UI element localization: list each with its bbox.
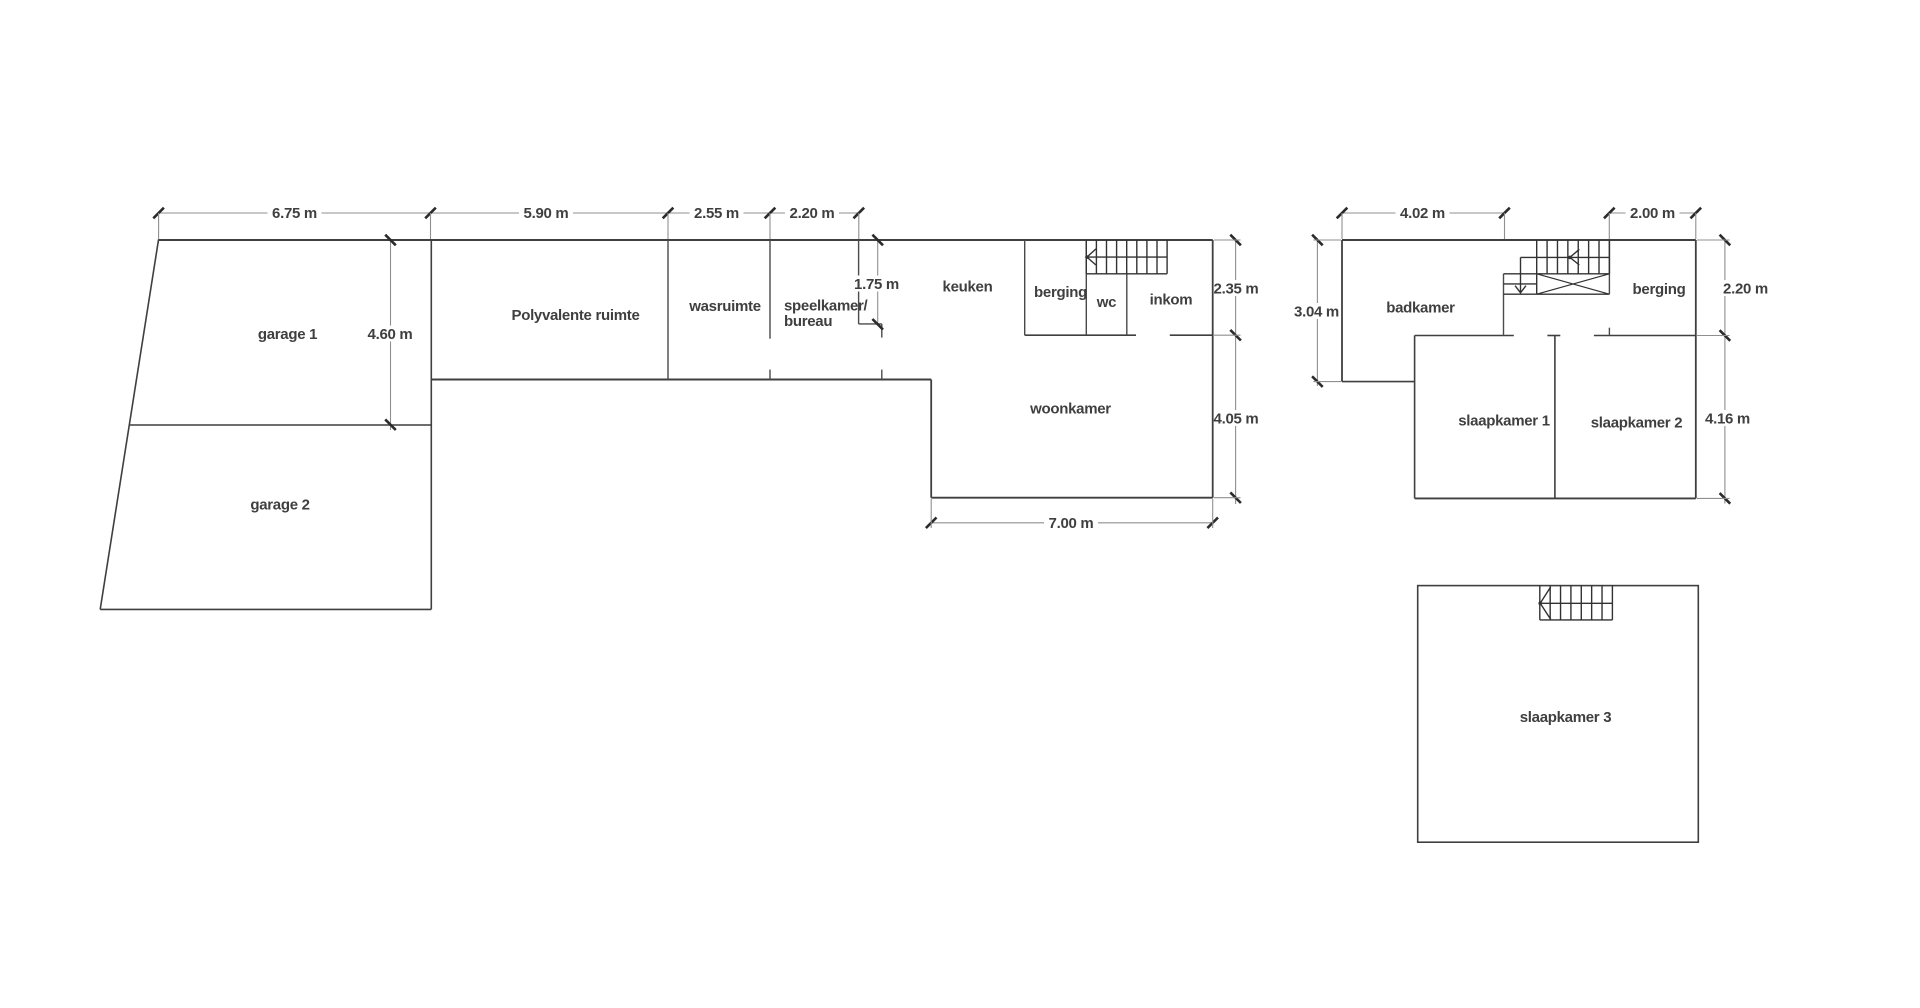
partition wasruimte|speelkamer upper — [769, 240, 771, 339]
svg-text:woonkamer: woonkamer — [1029, 400, 1111, 417]
bedrooms top wall segment B — [1547, 335, 1560, 337]
first floor landing steps — [1504, 273, 1537, 275]
attic staircase bottom edge — [1540, 619, 1613, 621]
first floor staircase down arrow — [1520, 257, 1522, 292]
partition polyvalente|wasruimte — [667, 240, 669, 380]
svg-text:7.00 m: 7.00 m — [1049, 515, 1094, 532]
top dimension line first floor 2.00 m — [1609, 212, 1696, 214]
speelkamer right jamb upper — [881, 324, 883, 338]
svg-text:slaapkamer 2: slaapkamer 2 — [1591, 414, 1682, 431]
inkom bottom wall right segment — [1170, 334, 1213, 336]
garage 1 / garage 2 divider wall — [129, 424, 431, 426]
ground floor slanted left wall (garages) — [100, 239, 158, 609]
first floor staircase arrow up — [1570, 249, 1579, 265]
svg-text:2.20 m: 2.20 m — [790, 205, 835, 222]
dimension 2.20/4.16 right of first floor — [1724, 240, 1726, 504]
stairwell right jamb — [1608, 328, 1610, 336]
svg-text:badkamer: badkamer — [1386, 299, 1455, 316]
attic staircase treads — [1539, 586, 1541, 620]
ground floor outline: top wall — [159, 239, 1213, 241]
slaapkamer 1 left wall — [1414, 336, 1416, 499]
bedrooms bottom wall — [1415, 497, 1696, 499]
woonkamer left wall — [930, 380, 932, 498]
attic staircase mid line — [1540, 602, 1612, 604]
svg-text:slaapkamer 1: slaapkamer 1 — [1458, 412, 1549, 429]
berging/wc bottom wall left segment — [1025, 334, 1136, 336]
svg-text:slaapkamer 3: slaapkamer 3 — [1520, 709, 1611, 726]
wc right wall — [1126, 274, 1128, 335]
extension lines top dims ground floor — [158, 213, 160, 239]
svg-text:1.75 m: 1.75 m — [854, 276, 899, 293]
first floor staircase mid line — [1521, 256, 1610, 258]
badkamer right wall at stairwell — [1503, 274, 1505, 336]
attic staircase arrow — [1540, 587, 1551, 620]
svg-text:berging: berging — [1633, 281, 1686, 298]
svg-text:speelkamer/: speelkamer/ — [784, 297, 869, 314]
dimension 3.04 m left of badkamer — [1316, 240, 1318, 386]
svg-text:garage 2: garage 2 — [250, 496, 309, 513]
svg-text:wc: wc — [1096, 294, 1116, 311]
top dimension line ground floor — [159, 212, 859, 214]
top dimension line first floor 4.02 m — [1342, 212, 1505, 214]
first floor staircase treads — [1536, 240, 1538, 294]
speelkamer bottom short wall — [859, 323, 882, 325]
svg-text:wasruimte: wasruimte — [688, 298, 761, 315]
garage 2 bottom wall — [100, 608, 431, 610]
svg-text:2.20 m: 2.20 m — [1723, 280, 1768, 297]
berging left wall — [1024, 240, 1026, 335]
dimension 2.35/4.05 line right of ground floor — [1235, 240, 1237, 504]
ground floor staircase treads — [1085, 240, 1087, 274]
strip bottom wall (polyvalente/wasruimte/speelkamer) — [431, 379, 931, 381]
ground floor staircase arrow — [1087, 249, 1096, 265]
badkamer bottom wall — [1342, 381, 1415, 383]
ground floor right wall — [1212, 240, 1214, 498]
svg-text:bureau: bureau — [784, 313, 832, 330]
partition wasruimte|speelkamer lower jamb — [769, 370, 771, 380]
dimension 4.60 m vertical in garage 1 — [390, 240, 392, 430]
speelkamer right wall — [858, 240, 860, 324]
ground floor staircase mid line — [1087, 256, 1167, 258]
slaapkamer divider wall — [1554, 336, 1556, 499]
first floor right wall — [1695, 240, 1697, 498]
first floor top wall — [1342, 239, 1696, 241]
stairwell right wall — [1608, 240, 1610, 294]
ground floor staircase bottom edge — [1086, 273, 1167, 275]
svg-text:berging: berging — [1034, 284, 1087, 301]
svg-text:4.60 m: 4.60 m — [368, 326, 413, 343]
svg-text:garage 1: garage 1 — [258, 326, 317, 343]
svg-text:Polyvalente ruimte: Polyvalente ruimte — [512, 307, 640, 324]
garage right wall — [430, 240, 432, 609]
slaapkamer 3 outline — [1418, 586, 1699, 843]
svg-text:2.55 m: 2.55 m — [694, 205, 739, 222]
speelkamer right jamb lower — [881, 370, 883, 380]
svg-text:keuken: keuken — [943, 278, 993, 295]
svg-text:4.16 m: 4.16 m — [1705, 410, 1750, 427]
svg-text:2.35 m: 2.35 m — [1214, 280, 1259, 297]
first floor staircase landing box with X — [1537, 293, 1610, 295]
svg-text:3.04 m: 3.04 m — [1294, 303, 1339, 320]
dimension labels and room labels — [268, 205, 322, 221]
svg-text:4.02 m: 4.02 m — [1400, 205, 1445, 222]
wc left wall / stairwell left — [1085, 240, 1087, 335]
badkamer left wall — [1341, 240, 1343, 382]
bedrooms top wall segment A — [1415, 335, 1514, 337]
svg-text:inkom: inkom — [1150, 291, 1193, 308]
svg-text:5.90 m: 5.90 m — [524, 205, 569, 222]
svg-text:2.00 m: 2.00 m — [1630, 205, 1675, 222]
svg-text:4.05 m: 4.05 m — [1214, 410, 1259, 427]
woonkamer bottom wall — [931, 497, 1212, 499]
first floor staircase tread bottom edge — [1537, 273, 1610, 275]
dimension 1.75 m vertical — [877, 240, 879, 324]
bedrooms top wall segment C — [1594, 335, 1696, 337]
svg-text:6.75 m: 6.75 m — [272, 205, 317, 222]
dimension 7.00 m below woonkamer — [931, 522, 1212, 524]
